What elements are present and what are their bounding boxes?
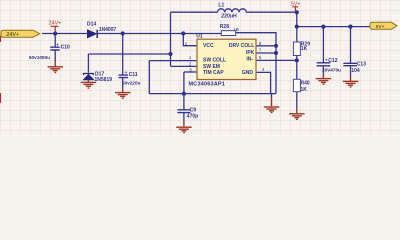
wire pin2 stub from vertical	[171, 65, 198, 67]
node junction feedback pin5	[295, 58, 299, 62]
node junction C9 bus	[182, 92, 186, 96]
svg-text:+: +	[125, 70, 128, 75]
node junction pin6 drop	[181, 31, 185, 35]
svg-text:TIM CAP: TIM CAP	[203, 70, 224, 76]
svg-text:1K: 1K	[301, 87, 308, 93]
wire top row to L1	[171, 11, 218, 13]
node junction pin8	[274, 44, 278, 48]
capacitor C10	[50, 47, 59, 50]
wire D17 cathode node horizontal	[88, 53, 170, 55]
wire pin7 stub	[256, 52, 276, 54]
ground below R40	[289, 109, 305, 119]
capacitor C12	[317, 63, 331, 66]
wire C13 top lead	[350, 27, 352, 64]
ground below C11	[115, 89, 131, 99]
wire main input port to D14 anode	[42, 33, 87, 35]
svg-text:470p: 470p	[187, 113, 198, 119]
wire C10 top lead from junction	[54, 34, 56, 48]
capacitor C13	[343, 63, 357, 65]
svg-text:R28: R28	[220, 24, 229, 30]
wire C10 bottom lead to ground	[54, 50, 56, 62]
wire D17 anode lead to ground	[87, 80, 89, 82]
svg-text:1N4007: 1N4007	[99, 27, 117, 33]
wire feedback column R29 top lead	[296, 12, 298, 42]
svg-text:VCC: VCC	[203, 43, 214, 49]
wire pin8 stub	[256, 45, 276, 47]
wire R29 bottom lead	[296, 56, 298, 80]
ground below C9	[176, 122, 192, 133]
wire R28 right lead down right column to bus	[236, 33, 276, 94]
diode D17 schottky	[83, 74, 94, 81]
wire switch-node vertical to L1	[170, 12, 172, 66]
svg-text:220uH: 220uH	[221, 13, 237, 19]
node junction pin7	[274, 51, 278, 55]
svg-text:U1: U1	[196, 34, 203, 40]
svg-text:+: +	[56, 43, 59, 48]
node junction switch node	[168, 52, 172, 56]
port 5V+ output	[370, 22, 397, 30]
wire 5V rail	[297, 26, 370, 28]
wire pin4 stub and drop to bus	[256, 72, 271, 93]
wire pin3 down to C9	[183, 72, 185, 110]
port 24V+ input	[1, 30, 40, 38]
wire C9 bottom lead	[183, 113, 185, 123]
svg-text:MC34063AP1: MC34063AP1	[189, 81, 226, 87]
svg-text:L1: L1	[218, 2, 224, 8]
resistor R40	[293, 79, 300, 91]
svg-text:1K: 1K	[301, 46, 308, 52]
svg-text:IN-: IN-	[246, 56, 253, 62]
wire C11 bottom lead	[122, 78, 124, 89]
inductor L1	[218, 9, 247, 12]
wire R40 bottom lead	[296, 92, 298, 110]
capacitor C9	[177, 110, 190, 113]
node junction C13 tap	[348, 25, 352, 29]
svg-text:R40: R40	[301, 81, 310, 87]
wire pin6 drop from main wire	[183, 34, 197, 46]
ground at bus end near pin4	[264, 97, 280, 113]
node junction rail start	[295, 25, 299, 29]
svg-text:24V+: 24V+	[6, 32, 19, 38]
wire vertical node after D14 down to C11	[122, 34, 124, 76]
svg-text:C12: C12	[328, 58, 337, 64]
ground below C12	[316, 74, 332, 84]
svg-text:1R: 1R	[234, 27, 239, 32]
svg-text:IPK: IPK	[246, 50, 255, 56]
wire C13 bottom lead	[350, 66, 352, 77]
svg-text:D14: D14	[87, 22, 96, 28]
ground below D17	[81, 81, 97, 89]
page edge artifact marks	[0, 36, 2, 103]
ground below C13	[343, 77, 359, 87]
svg-text:5V+: 5V+	[376, 24, 385, 30]
wire C12 bottom lead	[322, 66, 324, 74]
diode D14	[87, 30, 97, 38]
svg-text:DRV COLL: DRV COLL	[229, 43, 254, 49]
wire C12 top lead	[322, 27, 324, 63]
svg-text:SW EM: SW EM	[203, 64, 220, 70]
svg-text:C10: C10	[61, 45, 70, 51]
node junction C10 tap	[53, 31, 57, 35]
power symbol 24V+ net	[49, 20, 62, 33]
wire D17 top lead	[87, 54, 89, 73]
wire pin5 stub to feedback node	[256, 59, 297, 61]
capacitor C11	[119, 75, 129, 78]
svg-text:GND: GND	[242, 70, 254, 76]
svg-text:50v1000u: 50v1000u	[29, 55, 50, 60]
wire ground bus bottom	[149, 93, 276, 95]
svg-text:16V470u: 16V470u	[322, 67, 341, 72]
power symbol 5V+ net	[291, 1, 300, 11]
node junction C12 tap	[321, 25, 325, 29]
wire D14 cathode to R28 left lead	[98, 33, 221, 35]
svg-text:24V+: 24V+	[49, 20, 62, 26]
op-amp U1 MC34063 body	[197, 39, 256, 79]
wire L1 right to 5V corner	[246, 11, 296, 13]
resistor R28	[221, 31, 235, 36]
svg-text:104: 104	[351, 68, 360, 74]
svg-text:C13: C13	[357, 61, 366, 67]
resistor R29	[293, 42, 300, 56]
node junction 5V top corner	[295, 10, 299, 14]
svg-text:1N5819: 1N5819	[95, 77, 113, 83]
node junction after D14	[121, 31, 125, 35]
wire ground stub at bus end	[271, 94, 273, 98]
ground below C10	[48, 62, 64, 73]
wire pin1 horizontal	[149, 60, 197, 62]
svg-text:50v220u: 50v220u	[122, 81, 141, 86]
wire pin3 stub left	[184, 71, 197, 73]
wire pin1 corner down to bus	[148, 61, 150, 94]
svg-text:C11: C11	[129, 72, 138, 78]
svg-text:SW COLL: SW COLL	[203, 57, 226, 63]
